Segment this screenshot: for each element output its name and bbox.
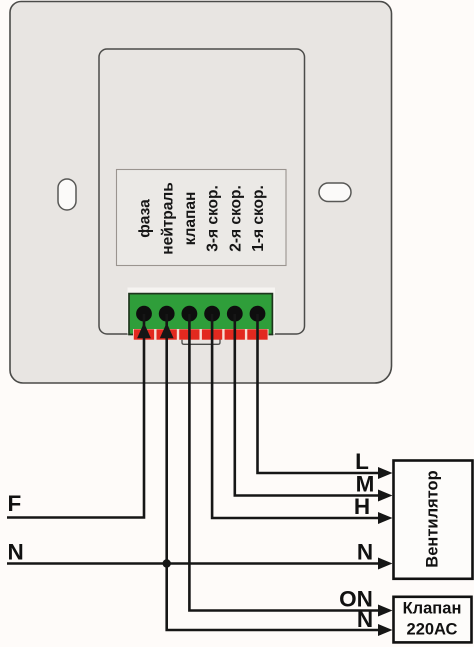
- svg-text:N: N: [357, 540, 373, 565]
- svg-text:F: F: [8, 491, 22, 516]
- wire 2-я скорость: terminal 5 down to M line: [234, 314, 379, 496]
- fan box Вентилятор: [394, 461, 473, 579]
- clamp strip (pale): [133, 329, 269, 340]
- screw slot right (horizontal): [319, 183, 351, 202]
- arrowhead ON: [378, 605, 393, 617]
- svg-text:1-я скор.: 1-я скор.: [250, 185, 267, 252]
- red clamp squares: [134, 329, 268, 339]
- svg-text:клапан: клапан: [182, 192, 199, 246]
- svg-text:3-я скор.: 3-я скор.: [205, 185, 222, 252]
- svg-text:N: N: [8, 540, 24, 565]
- wire 3-я скорость: terminal 4 down to H line: [211, 314, 379, 518]
- arrowhead N (fan): [378, 558, 393, 570]
- arrowhead H: [378, 512, 393, 524]
- terminal screw 1: [136, 306, 152, 322]
- inner module outline: [99, 49, 305, 334]
- terminal block (green): [129, 294, 272, 335]
- svg-text:нейтраль: нейтраль: [159, 182, 176, 255]
- svg-text:H: H: [354, 494, 370, 519]
- arrowhead L: [378, 467, 393, 479]
- arrowhead N (valve): [378, 624, 393, 636]
- wire фаза: terminal 1 down, F line to left: [7, 314, 145, 518]
- junction dot on N line: [163, 559, 171, 567]
- terminal screw 2: [159, 306, 175, 322]
- wall plate: [10, 2, 392, 384]
- svg-text:L: L: [355, 449, 369, 474]
- svg-text:фаза: фаза: [137, 199, 154, 238]
- wire клапан: terminal 3 down to ON line: [188, 314, 378, 611]
- bracket under клапан / 3-я скор. terminals: [182, 340, 220, 345]
- terminal screw 5: [227, 306, 243, 322]
- wire N line: left to Вентилятор: [7, 562, 379, 565]
- arrowhead M: [378, 490, 393, 502]
- up arrow terminal 1: [137, 323, 151, 338]
- svg-text:M: M: [356, 472, 375, 497]
- svg-text:Вентилятор: Вентилятор: [423, 470, 441, 567]
- svg-text:220АС: 220АС: [407, 621, 458, 639]
- terminal label panel: [117, 170, 287, 266]
- valve box Клапан 220АС: [394, 597, 472, 643]
- terminal screw 3: [182, 306, 198, 322]
- screw slot left (vertical): [58, 179, 76, 210]
- terminal screw 6: [250, 306, 266, 322]
- wire нейтраль: terminal 2 down to bottom N line: [165, 314, 378, 630]
- svg-text:N: N: [357, 607, 373, 632]
- terminal screw 4: [204, 306, 220, 322]
- svg-text:2-я скор.: 2-я скор.: [227, 185, 244, 252]
- up arrow terminal 2: [160, 323, 174, 338]
- wire 1-я скорость: terminal 6 down to L line: [256, 314, 378, 473]
- svg-text:Клапан: Клапан: [403, 600, 462, 618]
- terminal block backing (pale): [128, 288, 276, 335]
